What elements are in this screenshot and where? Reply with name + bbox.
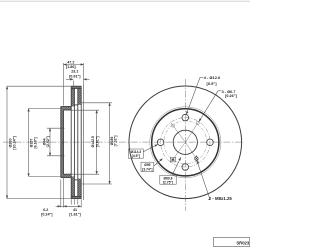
svg-text:41: 41: [73, 208, 77, 212]
svg-text:2 - M8x1.25: 2 - M8x1.25: [209, 196, 233, 201]
dimension 6.2: [56, 176, 64, 207]
section outline horizontals: [71, 85, 81, 87]
boxed dim D69.8: [160, 175, 176, 184]
boxed dim D95: [141, 162, 154, 171]
label 3 - D6.7: [199, 91, 221, 122]
bolt hole top: [182, 114, 189, 121]
radial centerline to M8 hole: [185, 142, 199, 162]
hub ring outer faint: [150, 107, 221, 178]
section: hatch flange full: [61, 110, 64, 174]
small-hole pitch circle dash-dot: [164, 121, 207, 164]
svg-text:[0.26"]: [0.26"]: [225, 94, 237, 98]
svg-text:[7.32"]: [7.32"]: [114, 136, 118, 147]
radial centerline to upper-right hole: [185, 118, 201, 143]
svg-text:[0.24"]: [0.24"]: [41, 213, 53, 217]
outer circle D260: [129, 86, 242, 199]
section: hatch hat wall bottom: [61, 174, 71, 177]
section: hatch right plate bottom: [78, 179, 81, 197]
radial centerline to lower-left mark: [170, 142, 185, 163]
svg-text:6.2: 6.2: [43, 208, 48, 212]
label 2 - M8x1.25: [197, 160, 210, 199]
svg-text:[4.5"]: [4.5"]: [132, 154, 140, 158]
svg-text:[10.24"]: [10.24"]: [12, 136, 16, 150]
svg-text:Ø142.5: Ø142.5: [91, 136, 95, 148]
section outline verticals: [61, 86, 81, 198]
bolt hole left: [157, 139, 164, 146]
section: hatch right plate top: [78, 88, 81, 105]
right face silhouette line: [83, 85, 85, 201]
bolt hole right: [207, 139, 214, 146]
dimension 47.2: [64, 63, 84, 106]
hub ring main: [152, 109, 219, 176]
M8 hole lower right: [195, 155, 199, 160]
svg-text:[0.91"]: [0.91"]: [69, 74, 81, 78]
dimension 41: [64, 199, 82, 207]
horizontal centerline (axis of section + right view): [3, 141, 244, 143]
svg-text:[0.5"]: [0.5"]: [207, 81, 218, 86]
section: hatch hat wall top: [61, 107, 71, 111]
dimension D64 bore: [47, 128, 65, 156]
tiny boxed mark: [170, 157, 175, 162]
boxed dim D114.3: [128, 149, 143, 158]
svg-text:[2.52"]: [2.52"]: [46, 136, 50, 147]
svg-text:[2.75"]: [2.75"]: [163, 180, 173, 184]
small hole upper left: [172, 124, 175, 127]
bolt circle dash-dot: [161, 118, 210, 167]
dimension D186: [82, 103, 112, 184]
label 4 - D12.6: [186, 77, 203, 114]
radial centerline to upper-left hole: [171, 122, 186, 142]
flange faces: [60, 107, 62, 178]
svg-text:[1.86]: [1.86]: [66, 65, 76, 69]
dimension 23.1: [66, 79, 90, 86]
dimension D142.5: [66, 110, 99, 174]
small hole upper right D6.7: [196, 121, 199, 124]
section: hatch left plate top: [71, 86, 81, 88]
dimension D260: [7, 86, 71, 198]
svg-text:[5.61"]: [5.61"]: [96, 136, 100, 147]
svg-text:[3.74"]: [3.74"]: [142, 167, 152, 171]
svg-text:[6.18"]: [6.18"]: [33, 137, 37, 148]
svg-text:SR023: SR023: [236, 240, 249, 245]
right view vertical centerline: [184, 79, 186, 211]
svg-text:47.2: 47.2: [67, 60, 74, 64]
svg-text:4 - Ø12.6: 4 - Ø12.6: [204, 75, 221, 80]
section: hatch left plate bottom: [71, 176, 74, 196]
bore edges: [61, 127, 64, 129]
dimension D157: [29, 108, 62, 176]
bolt hole bottom: [182, 164, 189, 171]
title box: [214, 237, 250, 246]
top edge scan line: [0, 0, 250, 2]
center bore circle: [173, 130, 197, 154]
svg-text:23.1: 23.1: [71, 70, 78, 74]
svg-text:[1.61"]: [1.61"]: [69, 213, 81, 217]
